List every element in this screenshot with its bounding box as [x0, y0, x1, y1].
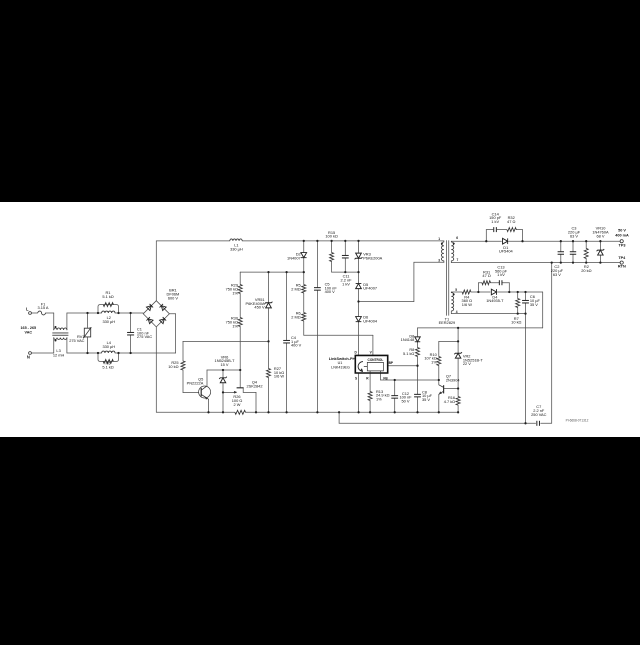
- svg-text:1%: 1%: [431, 359, 437, 364]
- svg-text:N: N: [27, 355, 30, 360]
- svg-text:4: 4: [456, 310, 458, 314]
- svg-text:1N4148: 1N4148: [401, 337, 415, 342]
- svg-text:RTN: RTN: [618, 265, 626, 269]
- svg-text:63 V: 63 V: [570, 233, 578, 238]
- svg-text:400 mA: 400 mA: [615, 233, 629, 237]
- svg-text:12 mH: 12 mH: [53, 352, 65, 357]
- svg-text:5.1 kΩ: 5.1 kΩ: [403, 351, 414, 356]
- svg-text:450 V: 450 V: [254, 305, 265, 310]
- svg-text:TP3: TP3: [619, 243, 626, 247]
- svg-text:330 µH: 330 µH: [102, 344, 115, 349]
- svg-text:400 V: 400 V: [325, 289, 336, 294]
- svg-text:1N4935-T: 1N4935-T: [486, 298, 504, 303]
- svg-text:22 V: 22 V: [463, 361, 471, 366]
- svg-text:275 VAC: 275 VAC: [69, 338, 84, 343]
- svg-text:2 MΩ: 2 MΩ: [291, 314, 300, 319]
- svg-text:5: 5: [455, 288, 457, 292]
- svg-text:1: 1: [438, 237, 440, 241]
- svg-text:UF5404: UF5404: [499, 249, 514, 254]
- svg-text:S: S: [355, 377, 357, 381]
- svg-text:3: 3: [438, 258, 440, 262]
- svg-text:6: 6: [456, 236, 458, 240]
- svg-text:VAC: VAC: [25, 331, 33, 335]
- svg-text:5.1 kΩ: 5.1 kΩ: [102, 364, 113, 369]
- svg-text:63 V: 63 V: [553, 272, 561, 277]
- svg-text:35 V: 35 V: [530, 302, 538, 307]
- svg-text:275 VAC: 275 VAC: [137, 334, 152, 339]
- svg-text:1 kV: 1 kV: [491, 219, 499, 224]
- svg-text:P6KE200A: P6KE200A: [363, 255, 382, 260]
- svg-text:1%: 1%: [376, 396, 382, 401]
- svg-text:1 kV: 1 kV: [342, 281, 350, 286]
- svg-text:2N3904: 2N3904: [446, 377, 460, 382]
- svg-text:400 V: 400 V: [291, 343, 302, 348]
- svg-text:1%: 1%: [232, 323, 238, 328]
- svg-text:UF4007: UF4007: [363, 286, 377, 291]
- svg-text:15 V: 15 V: [220, 362, 228, 367]
- svg-text:47 Ω: 47 Ω: [482, 273, 490, 278]
- svg-text:TP4: TP4: [618, 256, 626, 260]
- svg-text:EER2829: EER2829: [439, 320, 456, 325]
- svg-text:330 µH: 330 µH: [102, 319, 115, 324]
- svg-text:68 V: 68 V: [596, 233, 604, 238]
- svg-text:35 V: 35 V: [422, 397, 430, 402]
- svg-text:1%: 1%: [232, 290, 238, 295]
- svg-text:2 MΩ: 2 MΩ: [291, 287, 300, 292]
- svg-text:2 W: 2 W: [234, 402, 241, 407]
- svg-text:4.7 kΩ: 4.7 kΩ: [444, 399, 455, 404]
- svg-text:1/6 W: 1/6 W: [274, 374, 284, 379]
- svg-text:5.1 kΩ: 5.1 kΩ: [102, 294, 113, 299]
- svg-text:50 V: 50 V: [618, 228, 626, 232]
- svg-text:10 kΩ: 10 kΩ: [511, 320, 521, 325]
- svg-text:100 kΩ: 100 kΩ: [325, 234, 338, 239]
- svg-text:7: 7: [457, 258, 459, 262]
- svg-text:3.15 A: 3.15 A: [37, 305, 48, 310]
- svg-text:2SK2842: 2SK2842: [246, 384, 262, 389]
- svg-text:1N4007: 1N4007: [287, 255, 301, 260]
- svg-text:PI-6668-071312: PI-6668-071312: [566, 418, 589, 422]
- svg-text:10 kΩ: 10 kΩ: [168, 364, 178, 369]
- svg-text:1/6 W: 1/6 W: [462, 302, 472, 307]
- svg-text:UF4004: UF4004: [363, 318, 378, 323]
- svg-text:50 V: 50 V: [401, 398, 409, 403]
- svg-text:330 µH: 330 µH: [230, 246, 243, 251]
- svg-text:600 V: 600 V: [168, 295, 179, 300]
- svg-text:FB: FB: [383, 376, 388, 380]
- svg-text:LNK419EG: LNK419EG: [331, 365, 350, 369]
- svg-text:CONTROL: CONTROL: [368, 358, 384, 362]
- svg-text:20 kΩ: 20 kΩ: [581, 268, 591, 273]
- svg-text:PN2222A: PN2222A: [187, 380, 204, 385]
- svg-text:1 kV: 1 kV: [497, 272, 505, 277]
- svg-text:47 Ω: 47 Ω: [507, 219, 515, 224]
- svg-text:250 VAC: 250 VAC: [531, 412, 546, 417]
